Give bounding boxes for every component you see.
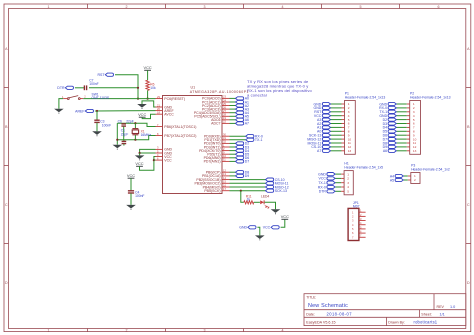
- LED D4 LED4: [260, 194, 269, 208]
- svg-text:1/1: 1/1: [440, 313, 445, 317]
- svg-text:4: 4: [282, 5, 284, 9]
- wire C3 to ground: [96, 123, 98, 132]
- svg-text:D: D: [5, 281, 8, 285]
- connector JP1 M07: [348, 201, 366, 240]
- svg-text:D7: D7: [245, 160, 250, 164]
- svg-text:100nF: 100nF: [135, 194, 144, 198]
- svg-text:TITLE:: TITLE:: [306, 295, 316, 299]
- svg-text:VCC: VCC: [135, 161, 143, 166]
- net TX-1: [230, 138, 263, 142]
- svg-text:2: 2: [126, 328, 128, 332]
- switch SW1 OMT-1103S: [62, 93, 110, 100]
- wire DTR to C7: [75, 87, 84, 89]
- ground at U1 GND pins: [135, 149, 156, 160]
- svg-text:A7: A7: [317, 149, 321, 153]
- svg-text:DTR: DTR: [319, 190, 327, 194]
- capacitor C6 22pF: [118, 119, 134, 139]
- ground: [271, 209, 281, 213]
- svg-text:ATMEGA328P-AU-1000060P1: ATMEGA328P-AU-1000060P1: [190, 90, 249, 94]
- svg-text:VCC: VCC: [281, 214, 289, 219]
- svg-text:100nF: 100nF: [89, 82, 98, 86]
- svg-text:3: 3: [204, 5, 206, 9]
- junction: [134, 139, 136, 141]
- capacitor C1 22pF: [121, 129, 129, 146]
- wire D4 to ground: [265, 202, 276, 209]
- wire GND flag to ground: [257, 227, 259, 235]
- P1 net flags: [307, 102, 341, 153]
- svg-text:PB6(XTAL1(TOSC1): PB6(XTAL1(TOSC1): [164, 125, 196, 129]
- nets A0-A7: [230, 97, 250, 126]
- connector P2 Header-Female-2.54_1x13: [407, 92, 451, 155]
- H1 net flags: [318, 172, 341, 193]
- P3 net flags: [390, 174, 408, 182]
- svg-text:PC6(RESET): PC6(RESET): [164, 97, 185, 101]
- svg-text:Drawn By:: Drawn By:: [388, 321, 405, 325]
- svg-text:2: 2: [126, 5, 128, 9]
- svg-text:3: 3: [204, 328, 206, 332]
- svg-text:GND: GND: [239, 226, 247, 230]
- svg-text:REV: REV: [437, 305, 445, 309]
- svg-text:4: 4: [282, 328, 284, 332]
- resistor R6 10k: [146, 80, 156, 90]
- svg-text:SCK-13: SCK-13: [275, 189, 287, 193]
- junction: [137, 87, 139, 89]
- wire AREF to C3: [96, 111, 98, 120]
- svg-text:16MHz: 16MHz: [141, 133, 152, 137]
- U1 left pins: [156, 95, 197, 163]
- svg-text:roboticarts1: roboticarts1: [414, 320, 438, 325]
- svg-text:VCC: VCC: [138, 112, 146, 117]
- capacitor C7 100nF: [84, 78, 98, 90]
- svg-text:A7: A7: [245, 122, 249, 126]
- power VCC at U1 VCC pins: [135, 157, 155, 171]
- svg-text:D: D: [467, 281, 470, 285]
- resistor R11 1k: [244, 194, 254, 204]
- svg-text:a conectar: a conectar: [247, 92, 268, 97]
- svg-text:1: 1: [48, 5, 50, 9]
- P2 net flags: [379, 102, 407, 153]
- svg-text:PB7(XTAL2(TOSC2): PB7(XTAL2(TOSC2): [164, 134, 196, 138]
- ground: [113, 145, 123, 149]
- svg-text:PD7(AIN1): PD7(AIN1): [204, 160, 221, 164]
- junction: [137, 98, 139, 100]
- svg-text:RST: RST: [98, 73, 106, 77]
- svg-text:Header-Female-2.54_1x13: Header-Female-2.54_1x13: [345, 95, 386, 99]
- title block: [304, 294, 466, 326]
- svg-text:Header-Female-2.54_1x2: Header-Female-2.54_1x2: [411, 167, 450, 171]
- power VCC above R6: [143, 65, 151, 70]
- svg-text:100nF: 100nF: [102, 124, 111, 128]
- svg-text:1k: 1k: [247, 198, 251, 202]
- wire ground rail: [116, 123, 118, 145]
- svg-text:22pF: 22pF: [126, 119, 134, 123]
- svg-text:Header-Female-2.54_1x13: Header-Female-2.54_1x13: [410, 95, 451, 99]
- wire XTAL2: [117, 136, 155, 140]
- svg-text:Sheet:: Sheet:: [421, 313, 431, 317]
- wire XTAL1: [117, 123, 155, 126]
- connector P3 Header-Female-2.54_1x2: [408, 164, 450, 184]
- svg-text:6: 6: [438, 5, 440, 9]
- svg-text:New Schematic: New Schematic: [308, 303, 348, 309]
- connector P1 Header-Female-2.54_1x13: [342, 92, 386, 155]
- wire C7 to reset net: [89, 87, 138, 89]
- net RX-0: [230, 134, 263, 138]
- connector H1 Header-Female-2.54_1x5: [341, 162, 383, 195]
- junction: [134, 122, 136, 124]
- wire VCC to C4: [130, 178, 132, 190]
- svg-text:AVCC: AVCC: [164, 113, 174, 117]
- crystal X1 16MHz: [132, 123, 151, 140]
- svg-text:VCC: VCC: [263, 226, 271, 230]
- power VCC at AVCC: [138, 112, 146, 117]
- svg-text:C: C: [467, 203, 470, 207]
- junction: [147, 98, 149, 100]
- wire VCC flag to VCC: [281, 219, 285, 227]
- svg-text:10k: 10k: [150, 86, 156, 90]
- note: TX/RX explanation: [247, 79, 313, 97]
- svg-text:D9: D9: [245, 174, 250, 178]
- svg-text:AREF: AREF: [75, 109, 84, 113]
- svg-text:VCC: VCC: [143, 65, 151, 70]
- net flag AREF: [75, 109, 93, 113]
- svg-text:PB5(SCK): PB5(SCK): [204, 189, 220, 193]
- svg-text:13: 13: [413, 149, 417, 153]
- wire AREF to U1: [95, 110, 156, 112]
- net flag VCC: [263, 226, 279, 230]
- svg-text:A5: A5: [390, 178, 394, 182]
- ground: [126, 205, 136, 209]
- wire VCC to R6: [147, 70, 149, 80]
- svg-text:22pF: 22pF: [121, 132, 129, 136]
- net flag DTR: [57, 86, 73, 90]
- ground: [255, 235, 265, 239]
- op-amp U1 ATMEGA328P-AU body: [163, 86, 249, 194]
- wire R6 to reset net: [147, 90, 149, 98]
- svg-text:TX-1: TX-1: [255, 138, 263, 142]
- ground: [54, 109, 64, 113]
- svg-text:OMT-1103S: OMT-1103S: [92, 96, 110, 100]
- wire VCC to AVCC pin: [142, 114, 155, 118]
- svg-text:5: 5: [347, 190, 349, 194]
- svg-text:C: C: [5, 203, 8, 207]
- nets CS-10 MOSI-11 MISO-12 SCK-13: [230, 178, 289, 193]
- svg-text:2018-08-07: 2018-08-07: [327, 312, 353, 317]
- wire junction down to R11: [241, 191, 244, 203]
- junction on SCK net: [240, 190, 242, 192]
- junction: [116, 139, 118, 141]
- svg-text:VCC: VCC: [127, 173, 135, 178]
- power VCC: [281, 214, 289, 219]
- svg-text:A6: A6: [383, 149, 387, 153]
- wire reset net: [83, 98, 155, 100]
- wire C4 to ground: [130, 193, 132, 205]
- junction: [96, 110, 98, 112]
- nets D2-D7: [230, 142, 250, 164]
- power VCC above C4: [127, 173, 135, 178]
- nets D8-D9: [230, 170, 250, 178]
- svg-text:ADC7: ADC7: [211, 122, 220, 126]
- net flag GND: [239, 226, 256, 230]
- ground: [92, 131, 102, 135]
- svg-text:VCC: VCC: [164, 158, 172, 162]
- capacitor C3 100nF: [94, 120, 111, 128]
- wire switch to ground: [59, 99, 63, 109]
- svg-text:1.0: 1.0: [450, 305, 455, 309]
- svg-text:LED4: LED4: [261, 194, 269, 198]
- svg-text:DTR: DTR: [57, 86, 65, 90]
- svg-text:13: 13: [348, 149, 352, 153]
- ground at U1 GND pin: [137, 101, 155, 109]
- svg-text:Header-Female-2.54_1x5: Header-Female-2.54_1x5: [344, 166, 383, 170]
- wire RST to reset net: [115, 75, 138, 99]
- capacitor C4 100nF: [128, 190, 145, 198]
- net flag RST: [98, 73, 114, 77]
- svg-text:C6: C6: [118, 119, 122, 123]
- svg-text:2: 2: [414, 178, 416, 182]
- svg-text:1: 1: [48, 328, 50, 332]
- svg-text:5: 5: [360, 5, 362, 9]
- U1 right pins: [194, 95, 230, 193]
- wire R11 to D4: [254, 201, 260, 203]
- svg-text:EasyEDA V5.6.15: EasyEDA V5.6.15: [306, 321, 335, 325]
- svg-text:Date:: Date:: [306, 313, 315, 317]
